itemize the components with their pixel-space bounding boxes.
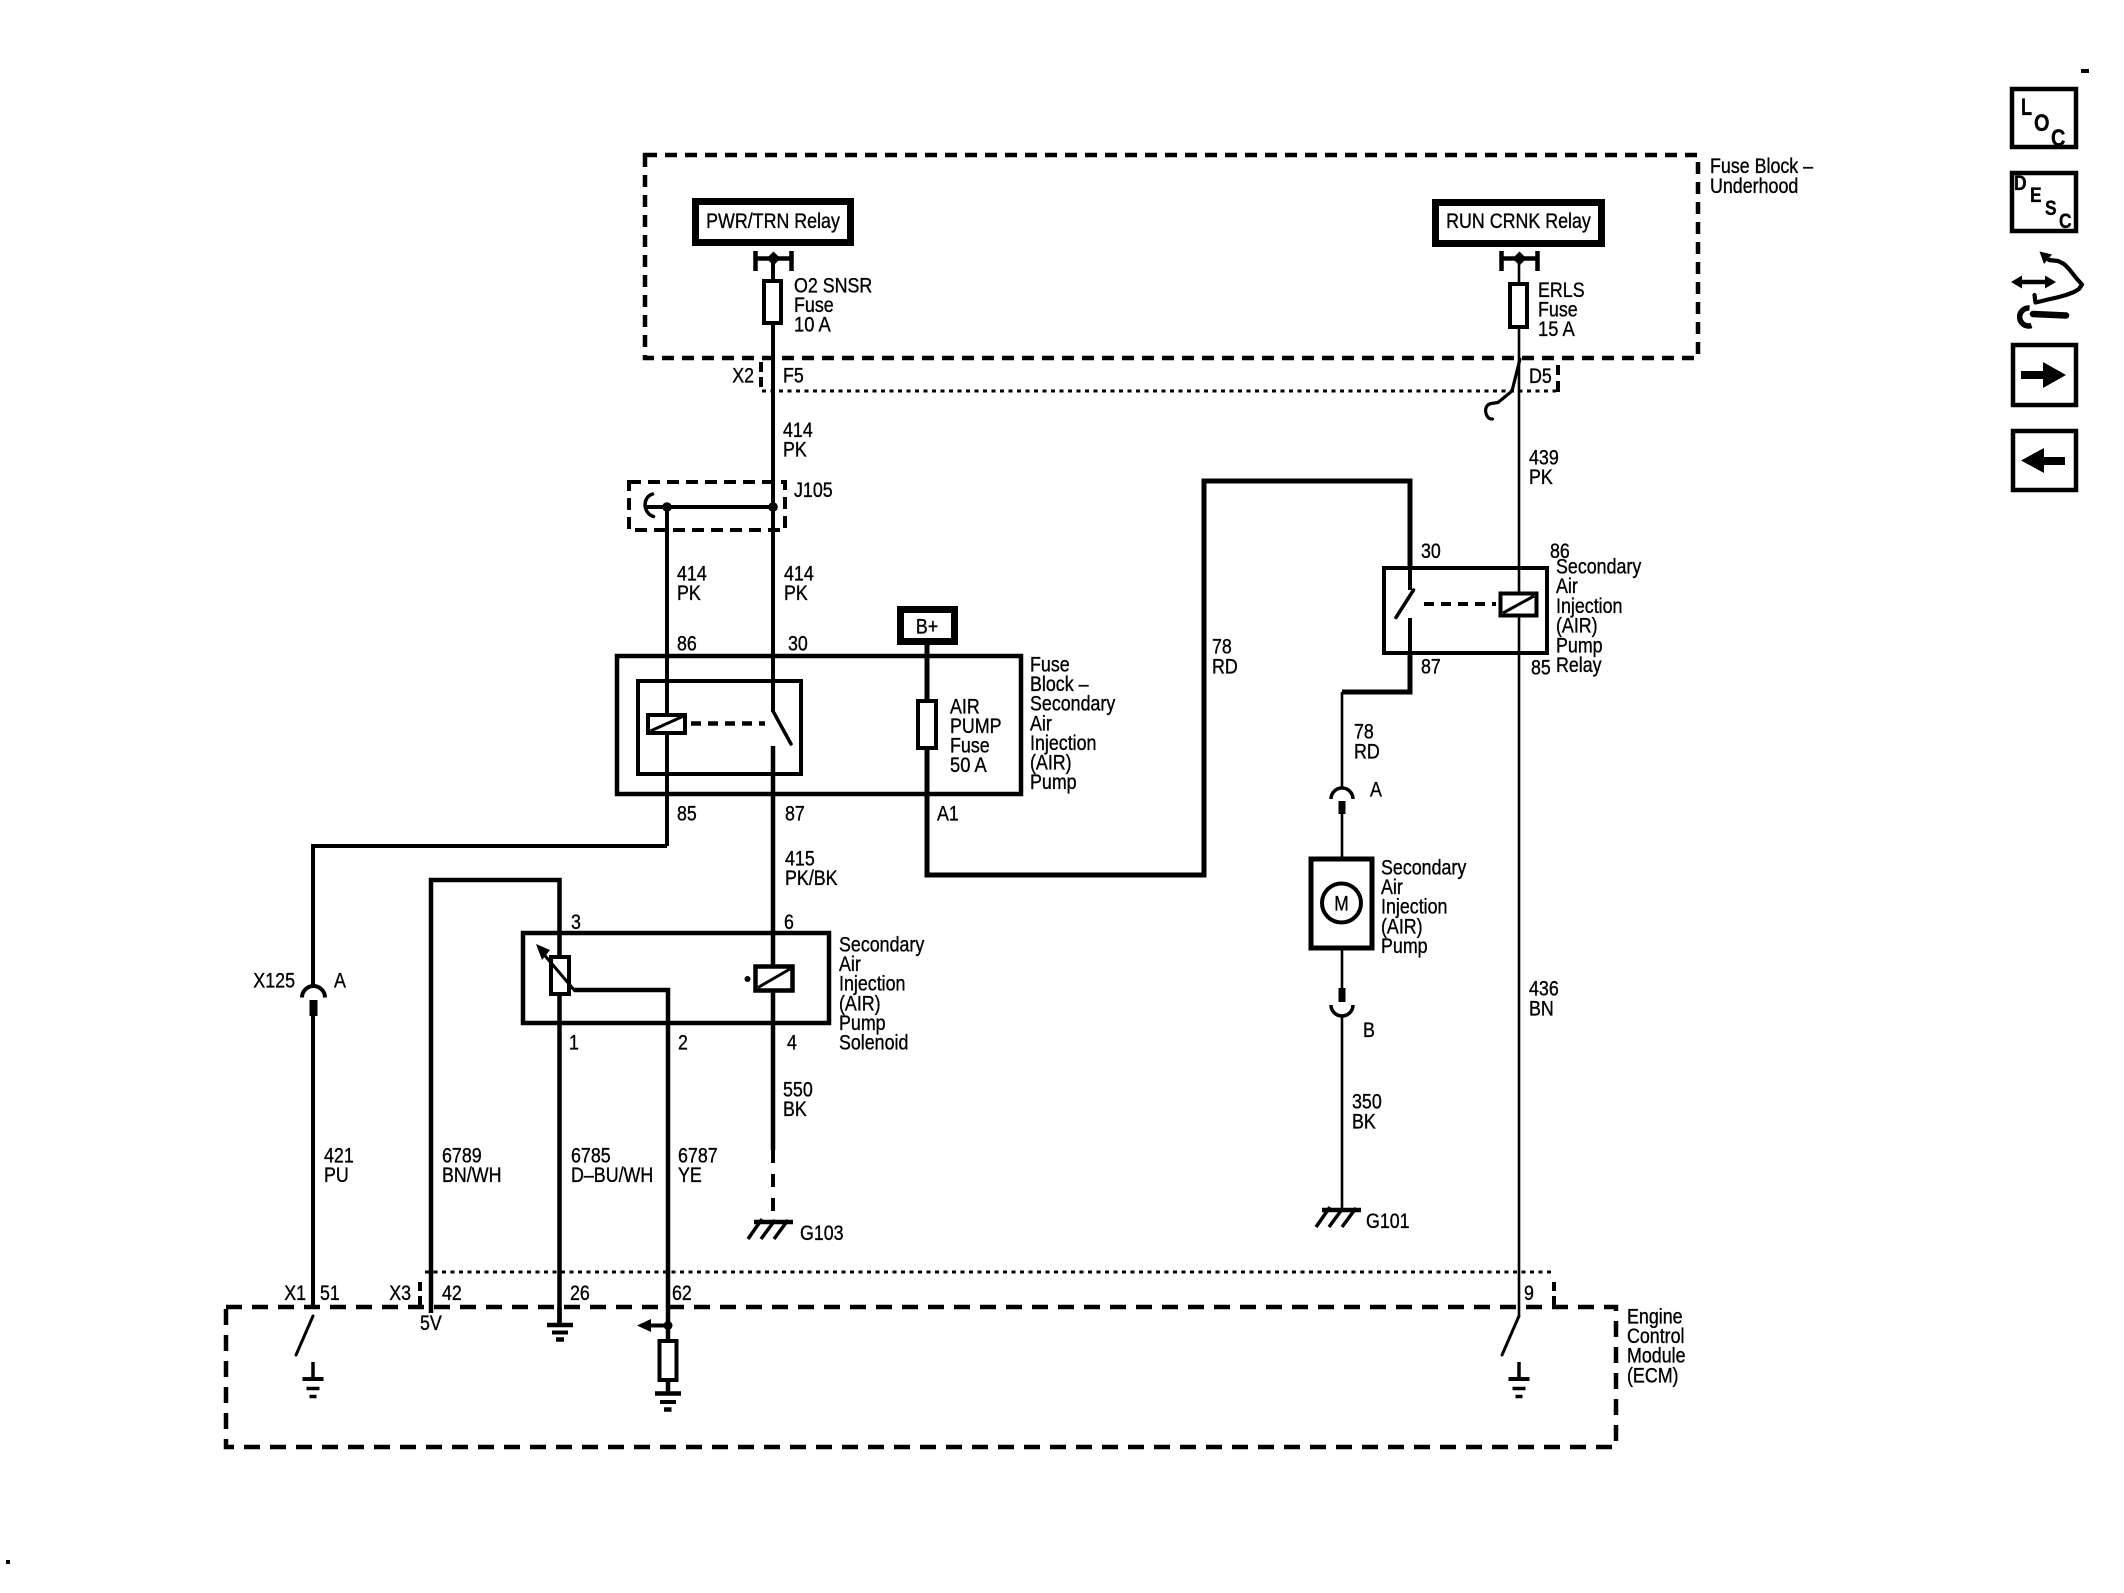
- svg-text:Solenoid: Solenoid: [839, 1031, 908, 1055]
- svg-text:E: E: [2030, 184, 2042, 207]
- svg-text:X3: X3: [389, 1281, 411, 1305]
- svg-text:Pump: Pump: [1030, 770, 1077, 794]
- svg-text:A1: A1: [937, 802, 959, 826]
- svg-text:BN/WH: BN/WH: [442, 1163, 502, 1187]
- svg-text:X125: X125: [253, 969, 295, 993]
- svg-text:X2: X2: [732, 364, 754, 388]
- svg-text:C: C: [2051, 125, 2065, 152]
- svg-text:B: B: [1363, 1018, 1375, 1042]
- svg-text:42: 42: [442, 1281, 462, 1305]
- svg-text:D: D: [2014, 172, 2027, 195]
- svg-text:D–BU/WH: D–BU/WH: [571, 1163, 653, 1187]
- svg-text:G101: G101: [1366, 1209, 1410, 1233]
- svg-text:86: 86: [677, 632, 697, 656]
- svg-text:A: A: [1370, 778, 1382, 802]
- svg-text:85: 85: [1531, 656, 1551, 680]
- svg-text:BK: BK: [1352, 1110, 1376, 1134]
- svg-text:PK: PK: [783, 438, 807, 462]
- svg-text:J105: J105: [794, 478, 833, 502]
- svg-text:15 A: 15 A: [1538, 317, 1575, 341]
- svg-text:85: 85: [677, 802, 697, 826]
- svg-text:Underhood: Underhood: [1710, 174, 1798, 198]
- svg-text:YE: YE: [678, 1163, 702, 1187]
- svg-text:PK/BK: PK/BK: [785, 866, 838, 890]
- svg-text:9: 9: [1524, 1281, 1534, 1305]
- svg-text:D5: D5: [1529, 364, 1552, 388]
- svg-text:BN: BN: [1529, 997, 1554, 1021]
- svg-text:2: 2: [678, 1031, 688, 1055]
- svg-text:RUN CRNK Relay: RUN CRNK Relay: [1446, 209, 1591, 233]
- svg-text:PK: PK: [1529, 465, 1553, 489]
- svg-text:4: 4: [787, 1031, 797, 1055]
- svg-text:87: 87: [785, 802, 805, 826]
- svg-text:RD: RD: [1354, 740, 1380, 764]
- svg-text:A: A: [334, 969, 346, 993]
- svg-text:C: C: [2059, 210, 2072, 233]
- svg-text:X1: X1: [284, 1281, 306, 1305]
- svg-text:B+: B+: [916, 615, 938, 639]
- svg-text:PU: PU: [324, 1163, 349, 1187]
- svg-text:10 A: 10 A: [794, 313, 831, 337]
- svg-text:S: S: [2045, 197, 2057, 220]
- svg-text:M: M: [1334, 893, 1349, 916]
- svg-text:G103: G103: [800, 1221, 844, 1245]
- svg-text:(ECM): (ECM): [1627, 1363, 1679, 1387]
- svg-text:26: 26: [570, 1281, 590, 1305]
- svg-text:PWR/TRN Relay: PWR/TRN Relay: [706, 209, 840, 233]
- svg-text:30: 30: [1421, 539, 1441, 563]
- svg-text:O: O: [2034, 110, 2050, 137]
- svg-text:1: 1: [569, 1031, 579, 1055]
- svg-text:RD: RD: [1212, 655, 1238, 679]
- svg-text:50 A: 50 A: [950, 753, 987, 777]
- svg-text:PK: PK: [784, 581, 808, 605]
- svg-text:3: 3: [571, 910, 581, 934]
- svg-text:62: 62: [672, 1281, 692, 1305]
- svg-text:5V: 5V: [420, 1311, 442, 1335]
- svg-text:87: 87: [1421, 655, 1441, 679]
- svg-text:30: 30: [788, 632, 808, 656]
- svg-text:Pump: Pump: [1381, 934, 1428, 958]
- svg-text:51: 51: [320, 1281, 340, 1305]
- svg-text:F5: F5: [783, 364, 804, 388]
- svg-text:L: L: [2021, 94, 2032, 121]
- svg-text:PK: PK: [677, 581, 701, 605]
- svg-text:Relay: Relay: [1556, 653, 1602, 677]
- svg-text:6: 6: [784, 910, 794, 934]
- svg-text:BK: BK: [783, 1097, 807, 1121]
